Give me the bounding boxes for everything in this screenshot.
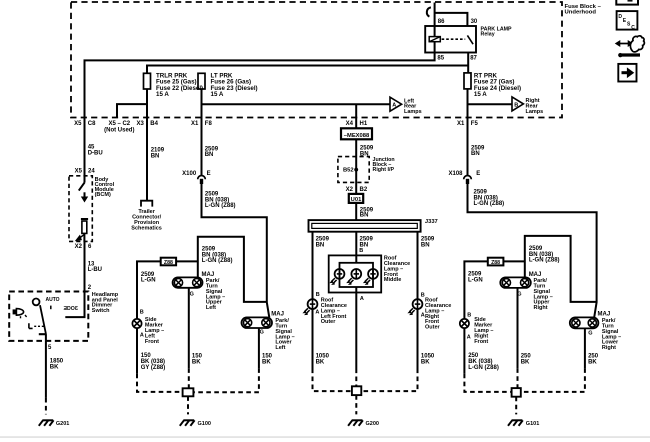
svg-text:L-GN: L-GN xyxy=(141,278,156,284)
svg-text:L-GN (Z88): L-GN (Z88) xyxy=(202,258,233,264)
svg-text:BK: BK xyxy=(50,364,59,370)
svg-text:85: 85 xyxy=(437,56,444,62)
svg-text:B: B xyxy=(140,309,144,315)
svg-text:B: B xyxy=(316,292,320,298)
svg-text:Front: Front xyxy=(145,339,159,345)
svg-text:BN: BN xyxy=(471,151,480,157)
svg-text:C8: C8 xyxy=(88,121,96,127)
svg-text:B4: B4 xyxy=(150,121,158,127)
svg-text:A: A xyxy=(315,310,319,316)
svg-text:2: 2 xyxy=(88,285,92,291)
svg-text:Underhood: Underhood xyxy=(565,9,597,15)
svg-text:ƎDOƐ: ƎDOƐ xyxy=(64,306,79,312)
svg-text:X5: X5 xyxy=(74,121,82,127)
svg-text:X5 – C2: X5 – C2 xyxy=(108,121,130,127)
svg-text:Left: Left xyxy=(206,305,216,311)
svg-text:A: A xyxy=(140,332,144,338)
svg-text:G: G xyxy=(260,330,264,336)
svg-text:Front: Front xyxy=(474,339,488,345)
svg-text:BK: BK xyxy=(192,360,201,366)
svg-text:Right I/P: Right I/P xyxy=(373,167,395,173)
svg-text:X1: X1 xyxy=(191,121,199,127)
svg-text:Z88: Z88 xyxy=(164,260,173,266)
svg-text:BN: BN xyxy=(151,154,160,160)
svg-text:A: A xyxy=(360,296,364,302)
svg-text:X2: X2 xyxy=(346,187,354,193)
svg-text:A: A xyxy=(392,103,396,109)
svg-text:L-GN (Z88): L-GN (Z88) xyxy=(205,203,236,209)
svg-text:30: 30 xyxy=(471,19,478,25)
svg-text:B2: B2 xyxy=(360,187,368,193)
svg-text:86: 86 xyxy=(438,19,445,25)
svg-text:Switch: Switch xyxy=(92,308,110,314)
svg-text:Lamps: Lamps xyxy=(526,109,544,115)
svg-text:MAJ: MAJ xyxy=(202,272,215,278)
svg-text:BN: BN xyxy=(316,243,325,249)
svg-text:Outer: Outer xyxy=(321,319,337,325)
svg-text:Outer: Outer xyxy=(425,325,441,331)
svg-text:MAJ: MAJ xyxy=(598,312,611,318)
svg-text:G200: G200 xyxy=(366,421,379,427)
svg-text:5: 5 xyxy=(48,345,52,351)
svg-text:G: G xyxy=(190,292,194,298)
svg-text:24: 24 xyxy=(88,169,95,175)
svg-text:B: B xyxy=(514,102,518,108)
svg-text:U01: U01 xyxy=(351,197,362,203)
svg-text:Right: Right xyxy=(534,305,548,311)
svg-text:BN: BN xyxy=(421,243,430,249)
svg-text:15 A: 15 A xyxy=(211,91,224,98)
svg-text:BN: BN xyxy=(205,152,214,158)
svg-text:B52: B52 xyxy=(343,167,354,173)
svg-text:AUTO: AUTO xyxy=(46,297,60,303)
svg-text:X4: X4 xyxy=(346,121,354,127)
svg-text:L-GN (Z88): L-GN (Z88) xyxy=(474,201,505,207)
svg-text:X108: X108 xyxy=(448,171,463,177)
svg-text:Lamps: Lamps xyxy=(404,109,422,115)
svg-text:B: B xyxy=(467,312,471,318)
svg-text:MAJ: MAJ xyxy=(271,312,284,318)
svg-text:E: E xyxy=(476,171,480,177)
svg-text:–MEX088: –MEX088 xyxy=(344,133,370,139)
svg-text:X100: X100 xyxy=(182,171,197,177)
svg-text:X2: X2 xyxy=(75,244,83,250)
svg-text:X3: X3 xyxy=(136,121,144,127)
svg-text:G201: G201 xyxy=(56,421,69,427)
svg-text:D-BU: D-BU xyxy=(88,150,103,156)
svg-text:BN: BN xyxy=(360,212,369,218)
svg-text:Middle: Middle xyxy=(384,277,401,283)
svg-text:Schematics: Schematics xyxy=(131,225,162,231)
svg-text:(Not Used): (Not Used) xyxy=(104,127,134,133)
svg-text:BK: BK xyxy=(521,360,530,366)
svg-text:A: A xyxy=(467,335,471,341)
svg-text:Relay: Relay xyxy=(481,31,495,37)
svg-text:F8: F8 xyxy=(205,121,213,127)
svg-text:X1: X1 xyxy=(457,121,465,127)
svg-text:G101: G101 xyxy=(526,421,539,427)
svg-text:H1: H1 xyxy=(360,121,368,127)
svg-text:B: B xyxy=(359,248,363,254)
svg-text:BK: BK xyxy=(421,360,430,366)
svg-text:L-GN (Z88): L-GN (Z88) xyxy=(529,258,560,264)
svg-text:87: 87 xyxy=(470,56,477,62)
svg-text:C: C xyxy=(631,25,635,31)
svg-text:E: E xyxy=(207,171,211,177)
svg-text:L-BU: L-BU xyxy=(88,267,102,273)
svg-text:Z88: Z88 xyxy=(491,260,500,266)
svg-text:L-GN (Z88): L-GN (Z88) xyxy=(468,365,499,371)
svg-text:BK: BK xyxy=(262,360,271,366)
svg-text:BK: BK xyxy=(316,360,325,366)
svg-text:J337: J337 xyxy=(425,219,438,225)
svg-text:MAJ: MAJ xyxy=(529,272,542,278)
svg-text:F5: F5 xyxy=(471,121,479,127)
svg-text:Right: Right xyxy=(602,345,616,351)
svg-text:(BCM): (BCM) xyxy=(95,192,111,198)
svg-text:G: G xyxy=(588,330,592,336)
svg-text:Left: Left xyxy=(275,345,285,351)
svg-text:L-GN: L-GN xyxy=(468,278,483,284)
svg-text:15 A: 15 A xyxy=(156,91,169,98)
svg-text:X5: X5 xyxy=(75,169,83,175)
svg-text:15 A: 15 A xyxy=(474,91,487,98)
svg-text:GY (Z88): GY (Z88) xyxy=(141,365,166,371)
svg-text:G100: G100 xyxy=(198,421,211,427)
svg-text:BK: BK xyxy=(588,360,597,366)
svg-text:6: 6 xyxy=(88,244,92,250)
